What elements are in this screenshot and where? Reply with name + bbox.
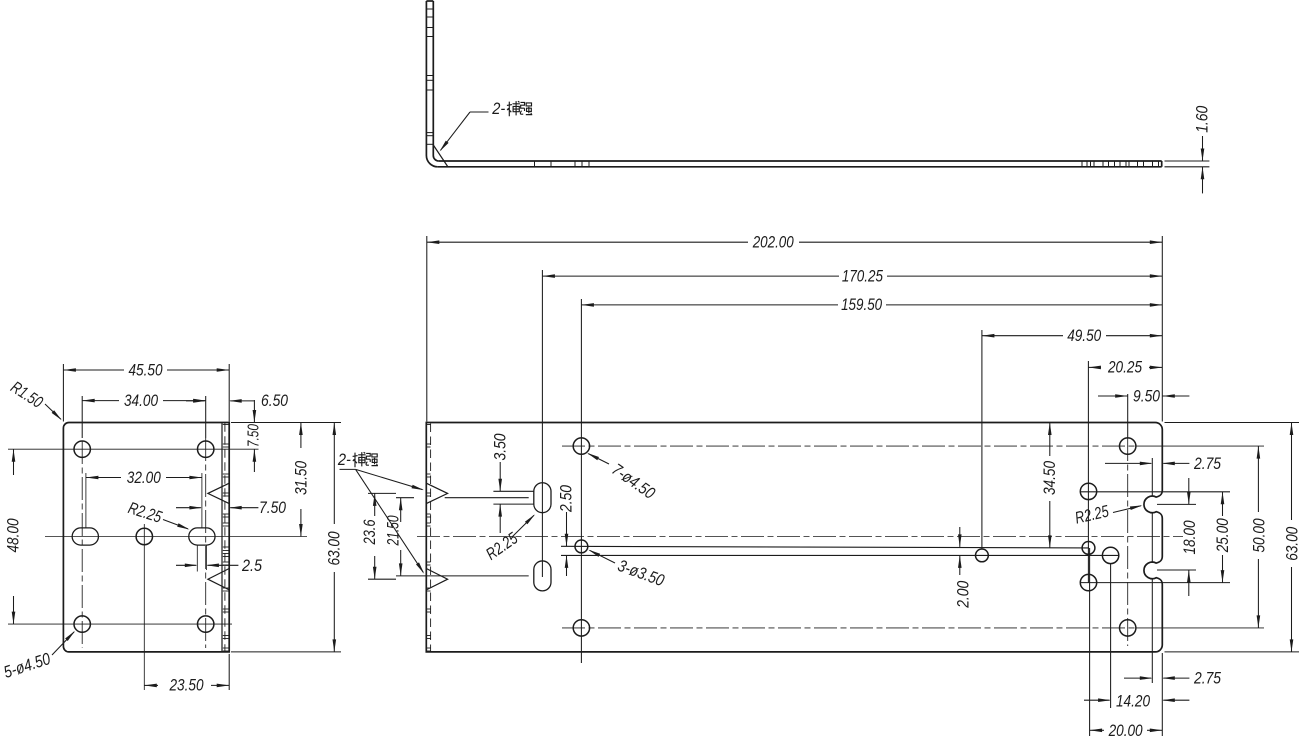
left view bottom hole row line <box>8 623 232 625</box>
dimension 3.50 extension lines <box>493 490 534 492</box>
hole A7 7-dia4.50 right cluster middle <box>1102 547 1118 563</box>
svg-text:2.00: 2.00 <box>953 580 972 608</box>
label 3-dia3.50 leader <box>590 550 615 563</box>
top hole row extension to 50.00 <box>1136 445 1264 447</box>
side view: plate bottom surface <box>438 166 1162 168</box>
left view column center line right x=205.7 <box>205 438 207 648</box>
dimension 7.50 top extension <box>231 422 259 424</box>
svg-text:49.50: 49.50 <box>1067 326 1102 345</box>
extension line x=426.8 for 202.00 <box>426 236 428 422</box>
center line horizontal <box>417 536 1183 538</box>
dimension 63.00 extension lines right <box>1165 422 1300 424</box>
dimension 2.50 <box>566 512 568 546</box>
svg-text:159.50: 159.50 <box>841 295 883 314</box>
hole A1 7-dia4.50 top-left <box>573 438 589 454</box>
side view: bend inner arc <box>433 156 439 162</box>
extension column x=1088.4 for 20.25 <box>1087 361 1089 583</box>
plan view: bend strip witness ticks <box>426 424 430 426</box>
side view: plate top surface <box>439 160 1162 162</box>
svg-text:202.00: 202.00 <box>752 233 794 252</box>
extension column x=1110.6 for 14.20 <box>1110 563 1112 708</box>
leader 2-hokyo plan view <box>340 468 356 470</box>
svg-text:34.50: 34.50 <box>1040 460 1059 495</box>
side view: plate right end cap <box>1161 161 1163 167</box>
dimension 34.50 <box>1049 423 1051 457</box>
svg-text:23.50: 23.50 <box>169 675 204 694</box>
left view hole C2 top-right <box>198 441 214 457</box>
svg-text:2.50: 2.50 <box>557 484 576 512</box>
svg-text:1.60: 1.60 <box>1192 105 1211 133</box>
plan view: bend line (dashed) <box>430 424 432 652</box>
left view 32.00 extension columns <box>85 473 87 528</box>
upper dart (reinforcement) in plan view <box>426 483 447 503</box>
side view: vertical flange inner edge <box>432 1 434 156</box>
left view: bend strip witness ticks <box>223 424 229 426</box>
plan view: part outline with right-edge notches <box>426 423 1162 652</box>
side view: plate hole witness ticks <box>534 161 536 167</box>
upper slot R2.25 <box>534 483 551 513</box>
dimension 23.50 <box>144 684 158 686</box>
hole A2 7-dia4.50 top-right <box>1120 438 1136 454</box>
extension/slot center column x=542.4 for 170.25 <box>541 270 543 577</box>
tapered groove lower edge <box>561 554 1119 556</box>
left view slot right R2.25 <box>189 528 215 545</box>
label R1.50 leader <box>45 404 61 419</box>
svg-text:34.00: 34.00 <box>124 391 159 410</box>
left view 34.00 extension stubs <box>81 396 83 438</box>
left view dart lower <box>208 569 229 590</box>
dimension 31.50 <box>300 423 302 449</box>
label R2.25 left view leader <box>163 520 188 529</box>
svg-text:63.00: 63.00 <box>324 531 343 566</box>
extension column x=1089.6 for 20.00 <box>1089 548 1091 736</box>
hole B1 3-dia3.50 left <box>575 540 588 553</box>
dimension 159.50 <box>581 304 838 306</box>
svg-text:20.25: 20.25 <box>1107 358 1142 377</box>
hole A3 7-dia4.50 bottom-left <box>573 620 589 636</box>
left view hole C4 bottom-right <box>198 616 214 632</box>
side view: vertical flange left edge <box>425 1 427 156</box>
dimension 25.00 extension lines <box>1080 491 1230 493</box>
dimension 49.50 <box>982 335 1063 337</box>
svg-text:3.50: 3.50 <box>490 433 509 461</box>
dimension 21.50 <box>400 498 402 522</box>
svg-text:170.25: 170.25 <box>842 266 884 285</box>
dimension 32.00 <box>86 477 121 479</box>
dimension 3.50 <box>499 462 501 491</box>
right hole column center line x=1127.7 <box>1127 438 1129 646</box>
dimension 202.00 <box>427 241 748 243</box>
svg-text:18.00: 18.00 <box>1180 520 1199 555</box>
left view middle column extension for 23.50 <box>143 524 145 690</box>
left view slot left R2.25 <box>72 528 98 545</box>
dimension 50.00 <box>1257 446 1259 512</box>
top hole row center line <box>562 445 1136 447</box>
hole A6 7-dia4.50 right cluster lower <box>1080 574 1096 590</box>
left view bottom edge extension right <box>231 651 341 653</box>
extension of right edge above <box>1161 236 1163 422</box>
leader 2-hokyo top <box>470 111 489 113</box>
svg-text:2-: 2- <box>491 99 505 118</box>
svg-text:50.00: 50.00 <box>1249 518 1268 553</box>
dimension 23.6 extension lines <box>368 492 396 494</box>
extension column x=581.4 for 159.50 <box>580 299 582 663</box>
dimension 20.00 <box>1090 729 1104 731</box>
svg-text:2.75: 2.75 <box>1193 669 1221 688</box>
svg-text:2.5: 2.5 <box>241 556 262 575</box>
svg-text:7.50: 7.50 <box>259 498 287 517</box>
left view dart upper <box>208 483 229 503</box>
svg-text:48.00: 48.00 <box>4 518 23 553</box>
left view hole C3 bottom-left <box>74 616 90 632</box>
left view top edge extension right long <box>231 422 341 424</box>
label 5-dia4.50 leader <box>52 632 74 655</box>
left view extension x=63.4 for 45.50 <box>62 364 64 422</box>
svg-text:32.00: 32.00 <box>127 468 162 487</box>
left view middle row line <box>45 536 307 538</box>
svg-text:25.00: 25.00 <box>1213 518 1232 553</box>
dimension 45.50 <box>63 369 124 371</box>
dimension 2.5 <box>176 564 196 566</box>
svg-text:14.20: 14.20 <box>1116 691 1151 710</box>
hole A5 7-dia4.50 right cluster upper <box>1080 483 1096 499</box>
hole B3 3-dia3.50 right <box>1082 542 1095 555</box>
left view: part outline <box>63 423 229 652</box>
dimension 25.00 <box>1222 492 1224 516</box>
svg-text:45.50: 45.50 <box>129 360 164 379</box>
extension column x=981.9 for 49.50 <box>981 330 983 549</box>
dimension 14.20 <box>1084 699 1110 701</box>
lower slot R2.25 <box>534 561 551 591</box>
left view: bend line dashed <box>224 423 226 651</box>
label R2.25 near slots leader <box>512 515 534 537</box>
side view: flange top end cap <box>426 0 433 2</box>
svg-text:2.75: 2.75 <box>1193 454 1221 473</box>
svg-text:20.00: 20.00 <box>1108 721 1143 740</box>
svg-text:63.00: 63.00 <box>1282 526 1301 561</box>
extension column x=1152.3 notch flat <box>1151 458 1153 496</box>
label R2.25 right notch leader <box>1113 506 1141 513</box>
dimension 2.00 <box>959 527 961 547</box>
dimension 21.50 extension lines <box>396 497 414 499</box>
dimension 1.60 arrows <box>1202 136 1204 161</box>
dimension 2.75 bottom-right <box>1124 677 1151 679</box>
svg-text:9.50: 9.50 <box>1133 386 1161 405</box>
dimension 170.25 <box>542 275 839 277</box>
dimension 63.00 right <box>1291 423 1293 521</box>
bottom hole row extension to 50.00 <box>1136 627 1264 629</box>
left view column center line left x=82.2 <box>81 441 83 648</box>
left view hole C5 middle <box>136 528 152 544</box>
hole B2 3-dia3.50 middle <box>976 549 989 562</box>
dimension 6.50 <box>186 400 205 402</box>
dimension 7.50 right (slot to edge) <box>176 507 201 509</box>
tapered groove upper edge <box>561 546 1089 548</box>
left view extension x=229.2 for 45.50 <box>228 364 230 422</box>
hole A4 7-dia4.50 bottom-right <box>1120 620 1136 636</box>
left view top hole row line <box>8 448 259 450</box>
svg-text:21.50: 21.50 <box>383 515 402 546</box>
dimension 2.75 top-right <box>1105 462 1151 464</box>
svg-text:23.6: 23.6 <box>360 519 379 545</box>
dimension 18.00 <box>1188 478 1190 504</box>
svg-text:6.50: 6.50 <box>261 391 289 410</box>
side view: reinforcement dart profile line <box>433 145 448 167</box>
dimension 23.6 <box>374 493 376 516</box>
left view hole C1 top-left <box>74 441 90 457</box>
svg-text:31.50: 31.50 <box>291 460 310 495</box>
dimension 7.50 top <box>253 400 255 423</box>
svg-text:2-: 2- <box>337 450 351 469</box>
extension of right edge below <box>1161 653 1163 736</box>
dimension 20.25 <box>1088 366 1101 368</box>
dimension 1.60 extension lines <box>1165 160 1210 162</box>
label 7-dia4.50 leader <box>588 454 609 464</box>
lower dart (reinforcement) in plan view <box>426 569 447 590</box>
side view: flange hole witness ticks <box>426 8 433 10</box>
bottom hole row center line <box>562 627 1136 629</box>
dimension 9.50 <box>1098 395 1128 397</box>
side view: bend outer arc <box>426 156 437 167</box>
dimension 2.5 extension lines <box>196 546 198 572</box>
extension column x=1127.7 for 9.50 <box>1127 394 1129 438</box>
dimension 34.00 <box>82 400 119 402</box>
dimension 23.50 extension right edge <box>228 654 230 690</box>
svg-text:7.50: 7.50 <box>246 424 263 447</box>
dimension 48.00 <box>13 449 15 475</box>
left view: bend tangent line <box>221 423 223 651</box>
dimension 18.00 extension lines <box>1157 503 1196 505</box>
dimension 63.00 left view <box>333 423 335 525</box>
